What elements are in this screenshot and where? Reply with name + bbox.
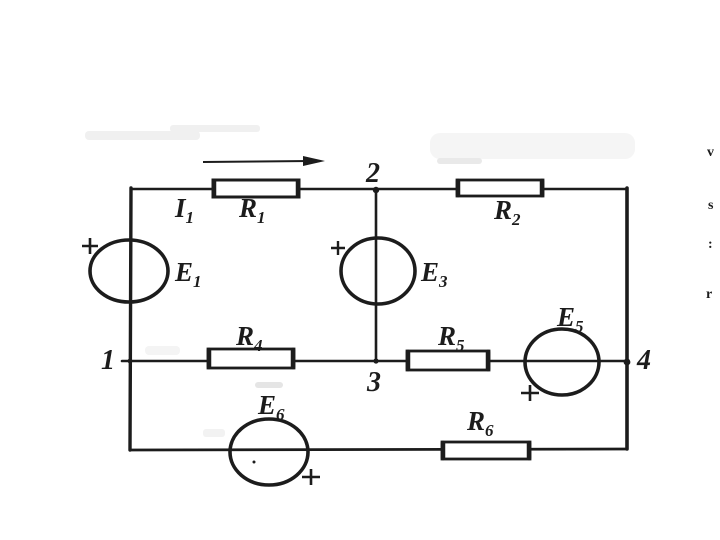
node 2 junction dot [373,187,379,193]
svg-text::: : [708,237,713,252]
wire: top horizontal (node between E1 and node 2, on to R2 and right corner) [131,188,627,191]
svg-text:E3: E3 [420,257,448,291]
resistor R2 [457,180,543,196]
resistor R1 [213,180,299,197]
plus sign of E6 [302,469,320,485]
node 4 junction dot [624,359,631,366]
svg-text:3: 3 [366,367,381,398]
svg-text:s: s [708,198,714,213]
source E1 [90,240,168,302]
wire: bottom horizontal through E6 and R6 [130,449,627,450]
svg-text:E6: E6 [257,390,285,424]
svg-text:E5: E5 [556,302,584,336]
svg-text:R6: R6 [466,406,494,440]
wire: right vertical branch node2-corner to node 4 to bottom corner [625,188,629,449]
dot inside E6 [253,461,256,464]
node 1 junction dot [128,359,133,364]
right edge cropped text fragments [706,145,714,302]
wire: centre vertical branch node2 - node3 through E3 [375,190,378,361]
resistor R6 [442,442,530,459]
resistor R5 [407,351,489,370]
svg-text:r: r [706,287,712,302]
plus sign of E3 [331,241,345,255]
svg-text:I1: I1 [174,193,194,227]
plus sign of E5 [521,385,539,401]
wire: left vertical branch through E1 [130,188,131,450]
wire: middle horizontal node1 - node3 - node4 [122,360,627,363]
svg-text:4: 4 [636,345,651,376]
svg-text:2: 2 [365,158,380,189]
svg-text:1: 1 [101,345,115,376]
svg-text:E1: E1 [174,257,202,291]
svg-text:v: v [707,145,714,160]
resistor R4 [208,349,294,368]
plus sign of E1 [82,238,98,254]
current arrow I1 [203,156,325,166]
source E6 [230,419,308,485]
svg-text:R5: R5 [437,321,465,355]
source E5 [525,329,599,395]
node 3 junction dot [373,358,378,363]
source E3 [341,238,415,304]
svg-text:R2: R2 [493,195,521,229]
resistor end caps (hand-drawn heavier strokes) [209,181,542,458]
svg-text:R4: R4 [235,321,263,355]
scan background blotches [85,125,635,437]
